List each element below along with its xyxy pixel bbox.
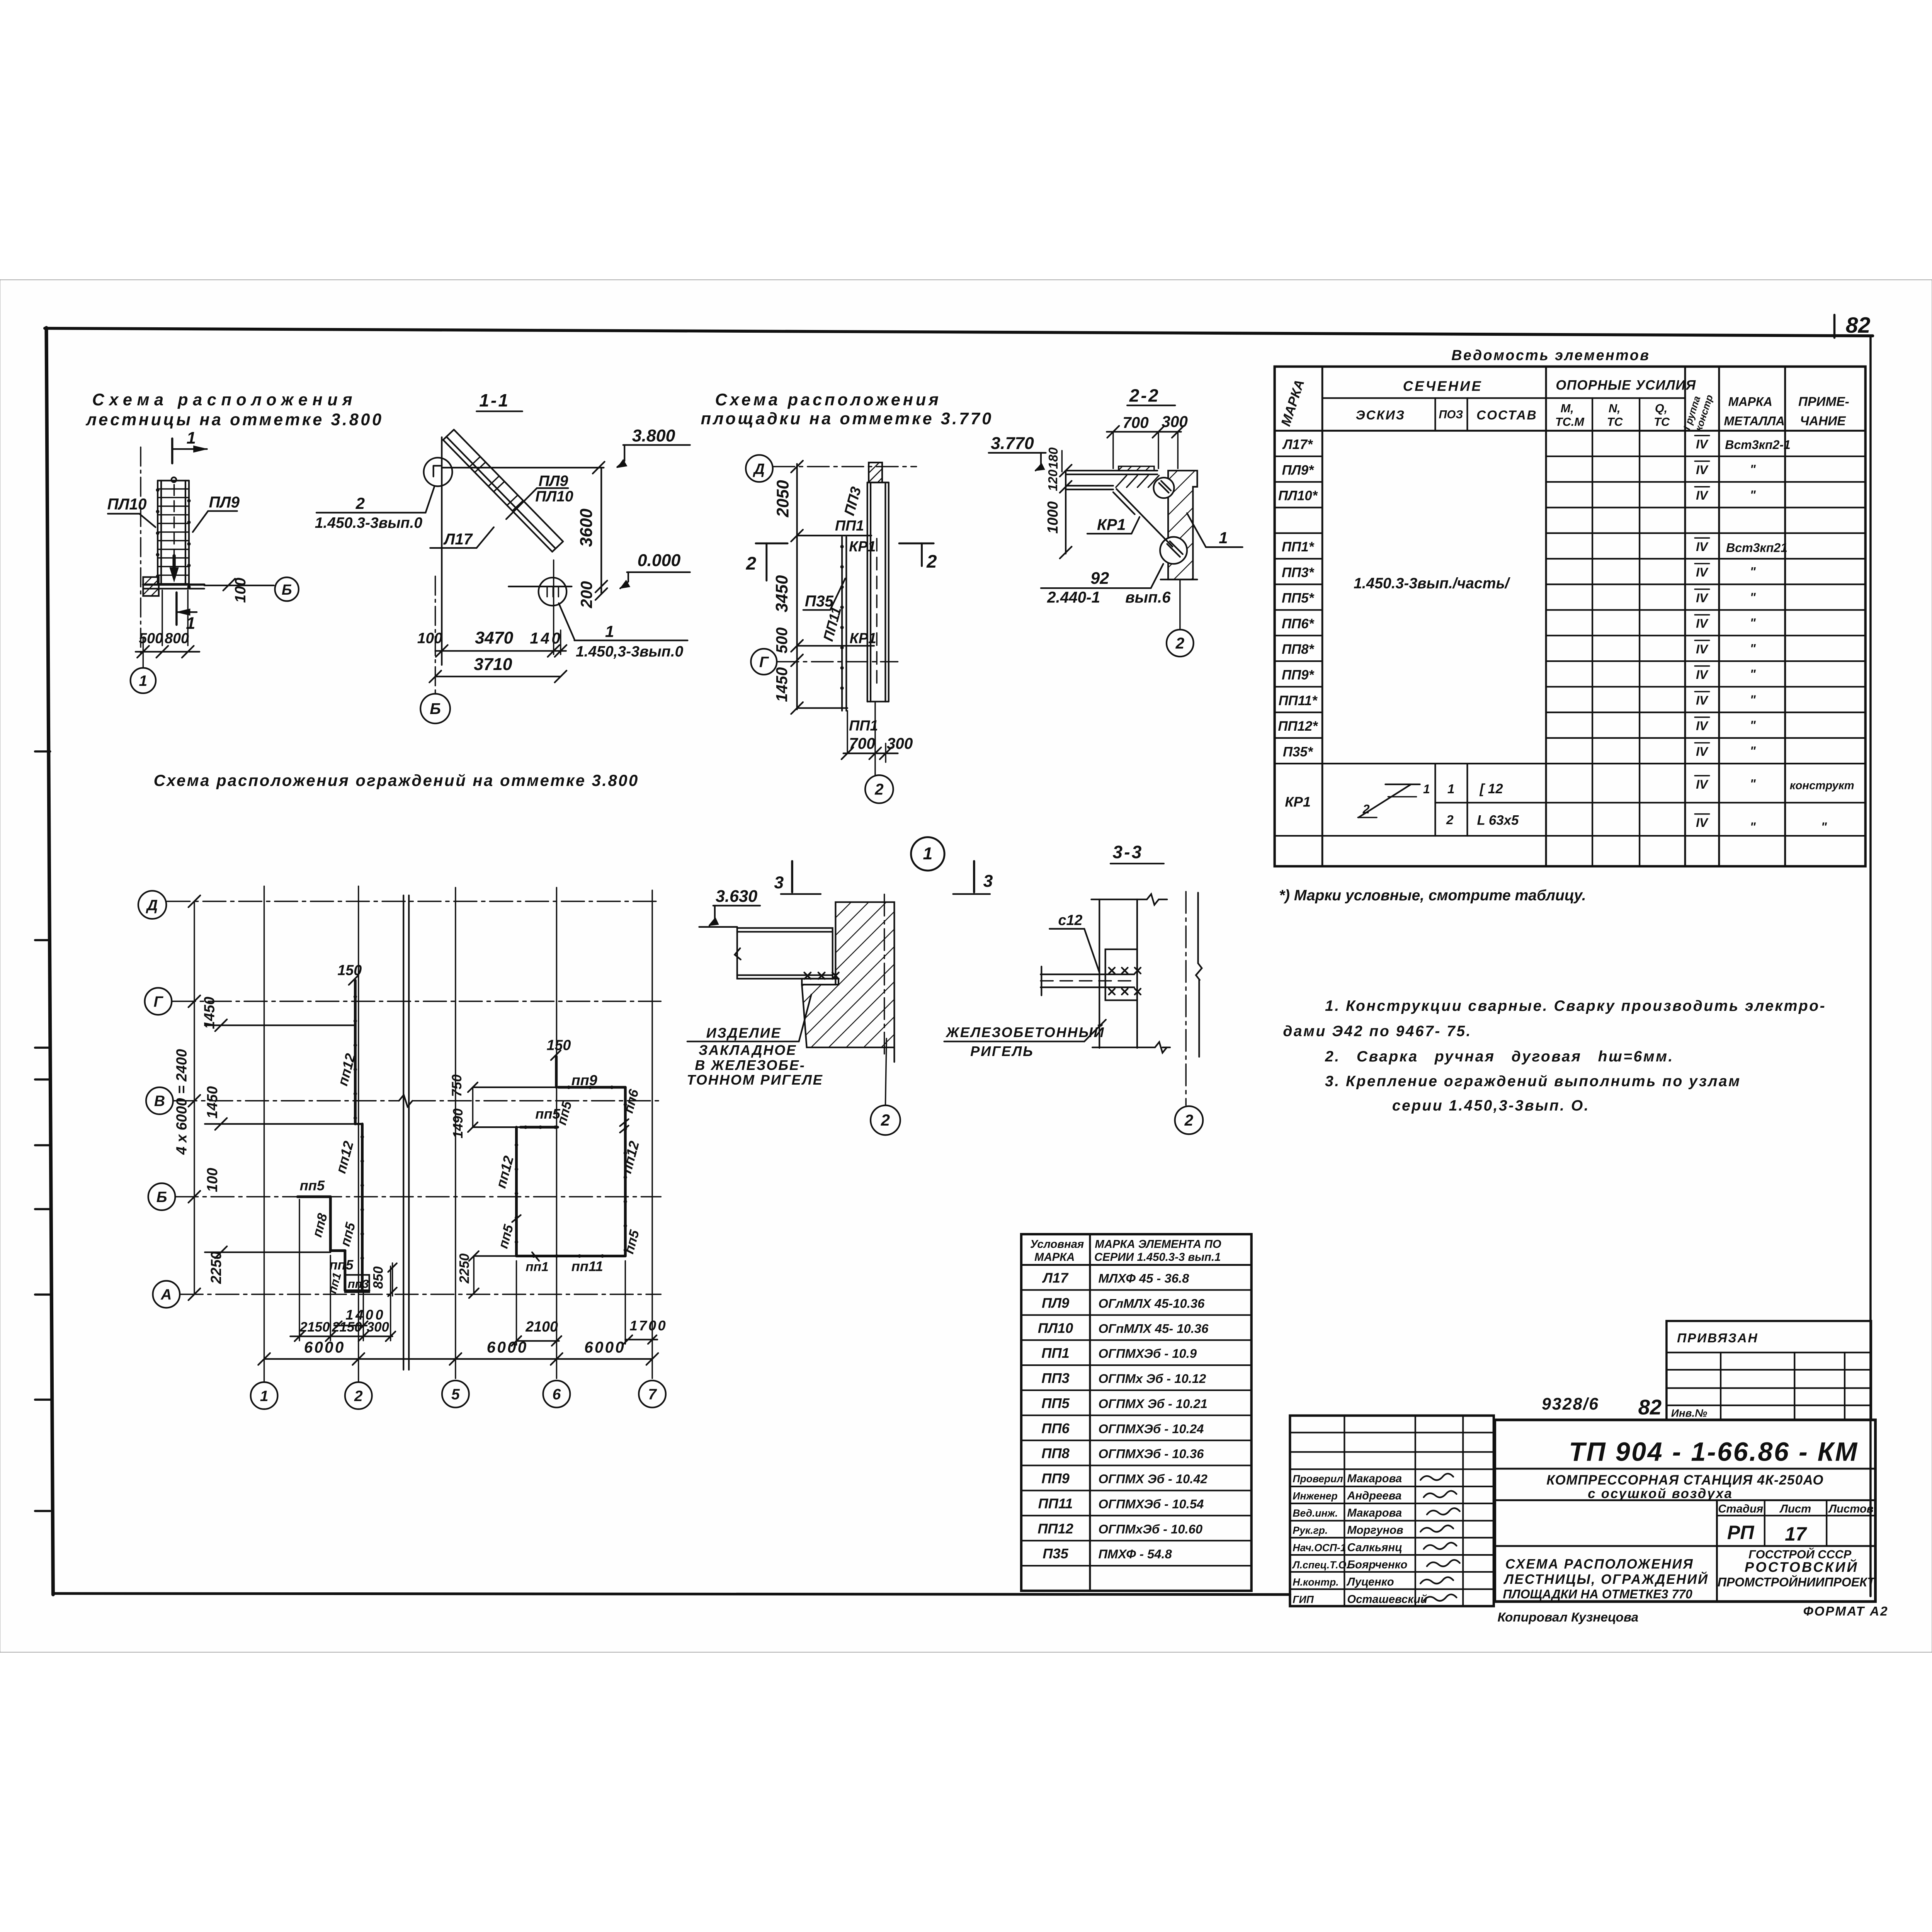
svg-text:7: 7 <box>648 1386 657 1403</box>
svg-text:Схема расположения ограждений: Схема расположения ограждений на отметке… <box>154 771 639 789</box>
section 2 flag right <box>899 542 934 545</box>
dots right group <box>567 1086 570 1089</box>
svg-text:ПП8: ПП8 <box>1041 1446 1070 1461</box>
svg-text:1700: 1700 <box>629 1318 667 1333</box>
svg-text:1450: 1450 <box>201 997 218 1029</box>
detail circle 1 <box>911 837 944 871</box>
svg-text:Л17*: Л17* <box>1282 437 1313 452</box>
svg-text:Боярченко: Боярченко <box>1347 1558 1407 1571</box>
svg-text:вып.6: вып.6 <box>1125 588 1171 606</box>
axis circle Д <box>746 455 773 482</box>
svg-text:2250: 2250 <box>457 1253 472 1284</box>
КР1 sketch <box>1359 784 1411 818</box>
svg-text:1: 1 <box>1219 529 1228 547</box>
пп3 box <box>345 1275 369 1292</box>
svg-text:КОМПРЕССОРНАЯ СТАНЦИЯ 4К-250А: КОМПРЕССОРНАЯ СТАНЦИЯ 4К-250АО <box>1546 1473 1824 1488</box>
svg-text:2: 2 <box>355 494 365 512</box>
svg-text:лестницы на отметке 3.800: лестницы на отметке 3.800 <box>85 411 383 429</box>
sheet number tick <box>1833 315 1836 338</box>
svg-text:Макарова: Макарова <box>1347 1472 1402 1485</box>
svg-text:": " <box>1750 590 1756 604</box>
ladder ПЛ9/ПЛ10 plan <box>156 481 159 585</box>
svg-text:Б: Б <box>156 1189 167 1206</box>
svg-text:ПП1*: ПП1* <box>1282 539 1315 554</box>
concrete column (hatched) <box>1168 471 1197 580</box>
svg-text:300: 300 <box>887 735 913 752</box>
svg-text:IV: IV <box>1696 719 1709 733</box>
svg-text:ПЛ10*: ПЛ10* <box>1278 488 1318 503</box>
page frame right border <box>1869 335 1872 1596</box>
leader 1 / 1.450,3-3вып.0 <box>559 603 574 639</box>
svg-text:ПЛ9: ПЛ9 <box>1042 1295 1070 1311</box>
svg-text:1450: 1450 <box>773 667 791 702</box>
svg-text:Салкьянц: Салкьянц <box>1347 1541 1402 1554</box>
svg-text:ЖЕЛЕЗОБЕТОННЫЙ: ЖЕЛЕЗОБЕТОННЫЙ <box>945 1024 1105 1040</box>
svg-text:2: 2 <box>926 551 937 572</box>
svg-text:Копировал Кузнецова: Копировал Кузнецова <box>1498 1610 1639 1624</box>
svg-text:ЧАНИЕ: ЧАНИЕ <box>1800 414 1846 429</box>
progon bar <box>1041 973 1134 976</box>
svg-text:3600: 3600 <box>577 509 596 547</box>
svg-text:МАРКА: МАРКА <box>1728 395 1772 409</box>
svg-text:ПЛ9: ПЛ9 <box>209 493 240 511</box>
weld circle bottom <box>1160 537 1187 564</box>
svg-text:3.770: 3.770 <box>991 434 1034 453</box>
level line 3.800 <box>442 466 604 469</box>
svg-text:МАРКА ЭЛЕМЕНТА ПО: МАРКА ЭЛЕМЕНТА ПО <box>1095 1238 1221 1251</box>
svg-text:180: 180 <box>1046 447 1061 469</box>
bottom detail circle <box>539 578 567 606</box>
svg-text:РП: РП <box>1727 1522 1754 1543</box>
expansion joint pair <box>402 895 405 1370</box>
svg-text:Моргунов: Моргунов <box>1347 1524 1403 1537</box>
svg-text:дами Э42 по 9467- 75.: дами Э42 по 9467- 75. <box>1283 1023 1472 1039</box>
svg-text:140: 140 <box>530 629 562 647</box>
svg-text:площадки на отметке 3.770: площадки на отметке 3.770 <box>701 410 993 428</box>
axis circle 2 bottom <box>865 775 893 803</box>
svg-text:Д: Д <box>146 897 158 914</box>
svg-text:ПЛОЩАДКИ НА ОТМЕТКЕ3 770: ПЛОЩАДКИ НА ОТМЕТКЕ3 770 <box>1503 1587 1692 1601</box>
lines below platform <box>161 590 163 646</box>
svg-text:2: 2 <box>1184 1111 1194 1129</box>
svg-text:3710: 3710 <box>474 655 512 674</box>
svg-text:пп9: пп9 <box>571 1072 597 1088</box>
svg-text:СЕРИИ 1.450.3-3 вып.1: СЕРИИ 1.450.3-3 вып.1 <box>1094 1251 1221 1264</box>
svg-text:Проверил: Проверил <box>1293 1473 1343 1485</box>
svg-text:": " <box>1750 463 1756 476</box>
svg-text:IV: IV <box>1696 437 1709 451</box>
svg-text:3450: 3450 <box>773 575 791 612</box>
svg-text:ОГПМхЭб - 10.60: ОГПМхЭб - 10.60 <box>1098 1522 1202 1536</box>
svg-text:ПМХФ - 54.8: ПМХФ - 54.8 <box>1098 1547 1172 1561</box>
svg-text:IV: IV <box>1696 816 1709 830</box>
svg-text:ПП8*: ПП8* <box>1282 642 1315 657</box>
svg-text:IV: IV <box>1696 642 1709 656</box>
brace KP1 <box>1116 489 1172 546</box>
svg-text:800: 800 <box>165 630 189 646</box>
weld xxx bottom <box>1109 989 1141 995</box>
axis В <box>146 1087 173 1114</box>
svg-text:IV: IV <box>1696 463 1709 477</box>
section mark 1 top <box>171 439 174 463</box>
svg-text:ОГпМЛХ 45- 10.36: ОГпМЛХ 45- 10.36 <box>1098 1321 1209 1335</box>
svg-text:2: 2 <box>1446 813 1454 827</box>
svg-text:РОСТОВСКИЙ: РОСТОВСКИЙ <box>1745 1559 1859 1575</box>
table row lines <box>1275 455 1322 457</box>
rail dots left run <box>354 995 357 998</box>
axis circle 1 <box>142 656 144 668</box>
hatched wall block <box>143 577 158 596</box>
svg-text:ГИП: ГИП <box>1293 1594 1314 1605</box>
svg-text:РИГЕЛЬ: РИГЕЛЬ <box>970 1043 1034 1059</box>
staff signature table <box>1290 1416 1493 1606</box>
svg-text:": " <box>1750 777 1756 791</box>
svg-text:В: В <box>154 1093 165 1110</box>
table header lines <box>1322 397 1685 399</box>
axis circle Б <box>420 694 450 723</box>
svg-text:КР1: КР1 <box>850 630 876 646</box>
bottom 6000 dims <box>264 1358 652 1360</box>
svg-text:ПП3*: ПП3* <box>1282 565 1315 580</box>
svg-text:ОГПМХ Эб - 10.21: ОГПМХ Эб - 10.21 <box>1098 1396 1207 1411</box>
vertical dim line <box>796 464 798 709</box>
svg-text:2: 2 <box>1362 802 1370 816</box>
svg-text:Л17: Л17 <box>1042 1270 1069 1286</box>
svg-text:пп5: пп5 <box>300 1177 325 1193</box>
wall vertical line <box>440 437 443 665</box>
svg-text:ПРИВЯЗАН: ПРИВЯЗАН <box>1677 1331 1758 1345</box>
border fold ticks <box>35 750 50 753</box>
svg-text:3: 3 <box>774 873 784 892</box>
svg-text:Лист: Лист <box>1779 1503 1811 1515</box>
svg-text:1: 1 <box>605 622 614 640</box>
svg-text:Г: Г <box>153 993 163 1010</box>
svg-text:пп1: пп1 <box>526 1260 549 1274</box>
svg-text:": " <box>1750 667 1756 681</box>
svg-text:1: 1 <box>260 1388 269 1405</box>
svg-text:ПП1: ПП1 <box>1041 1345 1069 1361</box>
svg-text:ТС: ТС <box>1607 415 1623 429</box>
signatures squiggles <box>1420 1474 1453 1480</box>
vertical dim line <box>600 468 602 594</box>
column stub hatched <box>869 463 882 483</box>
svg-text:300: 300 <box>1162 413 1188 430</box>
svg-text:L 63x5: L 63x5 <box>1477 813 1519 828</box>
svg-text:ПЛ10: ПЛ10 <box>1038 1320 1073 1336</box>
svg-text:": " <box>1821 820 1827 834</box>
svg-text:2050: 2050 <box>774 480 792 517</box>
platform edge lines <box>143 583 204 586</box>
svg-text:Г: Г <box>759 654 769 670</box>
svg-text:3. Крепление ограждений выполн: 3. Крепление ограждений выполнить по узл… <box>1325 1073 1741 1090</box>
weld xxx top <box>1109 968 1141 973</box>
svg-text:1: 1 <box>1447 782 1455 796</box>
svg-text:Макарова: Макарова <box>1347 1507 1402 1519</box>
svg-text:с осушкой воздуха: с осушкой воздуха <box>1588 1486 1733 1501</box>
svg-text:СХЕМА РАСПОЛОЖЕНИЯ: СХЕМА РАСПОЛОЖЕНИЯ <box>1505 1557 1694 1572</box>
svg-text:М,: М, <box>1561 401 1574 415</box>
svg-text:IV: IV <box>1696 668 1709 682</box>
svg-text:ПП6*: ПП6* <box>1282 616 1315 631</box>
axis line to Б <box>434 576 436 694</box>
svg-text:Листов: Листов <box>1828 1503 1874 1515</box>
svg-text:Н.контр.: Н.контр. <box>1293 1577 1338 1588</box>
wall bottom edge <box>1092 1046 1155 1049</box>
page frame top border <box>45 328 1873 336</box>
svg-text:ТП 904 - 1-66.86 - КМ: ТП 904 - 1-66.86 - КМ <box>1569 1437 1858 1467</box>
svg-text:Рук.гр.: Рук.гр. <box>1293 1525 1328 1536</box>
table outer border <box>1275 367 1866 866</box>
svg-text:700: 700 <box>849 735 875 752</box>
svg-text:ОГлМЛХ 45-10.36: ОГлМЛХ 45-10.36 <box>1098 1296 1205 1310</box>
platform slabs <box>1066 469 1157 472</box>
svg-text:В ЖЕЛЕЗОБЕ-: В ЖЕЛЕЗОБЕ- <box>695 1057 805 1073</box>
svg-text:4 х 6000 = 2400: 4 х 6000 = 2400 <box>173 1049 190 1155</box>
rivet dots on П35 <box>840 545 844 548</box>
svg-text:1450: 1450 <box>204 1086 220 1119</box>
svg-text:СОСТАВ: СОСТАВ <box>1476 408 1537 422</box>
svg-text:Вст3кп2-1: Вст3кп2-1 <box>1725 438 1791 452</box>
svg-text:*) Марки условные, смотрите та: *) Марки условные, смотрите таблицу. <box>1279 887 1586 904</box>
svg-text:ТОННОМ РИГЕЛЕ: ТОННОМ РИГЕЛЕ <box>687 1072 823 1088</box>
svg-text:500: 500 <box>773 627 791 653</box>
svg-text:82: 82 <box>1846 313 1871 338</box>
svg-text:1. Конструкции сварные. Сварку: 1. Конструкции сварные. Сварку производи… <box>1325 998 1826 1014</box>
svg-text:ЛЕСТНИЦЫ, ОГРАЖДЕНИЙ: ЛЕСТНИЦЫ, ОГРАЖДЕНИЙ <box>1503 1571 1709 1587</box>
axis А <box>153 1281 180 1308</box>
svg-text:IV: IV <box>1696 777 1709 791</box>
concrete column hatched <box>802 902 894 1048</box>
wall top edge <box>1091 898 1147 901</box>
svg-text:Инв.№: Инв.№ <box>1671 1407 1708 1419</box>
dashed centerline <box>876 539 878 690</box>
svg-text:": " <box>1750 616 1756 630</box>
left dim line <box>193 901 195 1294</box>
svg-text:Нач.ОСП-1: Нач.ОСП-1 <box>1293 1542 1346 1553</box>
svg-text:3.630: 3.630 <box>716 887 757 906</box>
svg-text:2. Сварка ручная дуговая hш=6м: 2. Сварка ручная дуговая hш=6мм. <box>1325 1048 1674 1065</box>
svg-text:3: 3 <box>983 872 993 891</box>
svg-text:1.450,3-3вып.0: 1.450,3-3вып.0 <box>576 643 684 660</box>
svg-text:": " <box>1750 744 1756 758</box>
svg-text:ОГПМХ Эб - 10.42: ОГПМХ Эб - 10.42 <box>1098 1472 1207 1486</box>
rigel inner rect <box>1105 949 1137 1000</box>
svg-text:82: 82 <box>1638 1396 1662 1419</box>
svg-text:ПП6: ПП6 <box>1041 1420 1070 1436</box>
weld xxx <box>804 973 838 979</box>
embedded channel <box>737 928 833 979</box>
svg-text:IV: IV <box>1696 591 1709 605</box>
svg-text:Вст3кп21: Вст3кп21 <box>1726 541 1787 555</box>
svg-text:Стадия: Стадия <box>1718 1503 1763 1515</box>
svg-text:ПП9*: ПП9* <box>1282 668 1315 683</box>
svg-text:ПОЗ: ПОЗ <box>1439 408 1463 421</box>
svg-text:Q,: Q, <box>1655 401 1667 415</box>
svg-text:ОГПМх Эб - 10.12: ОГПМх Эб - 10.12 <box>1098 1371 1206 1386</box>
svg-text:П35*: П35* <box>1283 744 1313 759</box>
svg-text:Ведомость элементов: Ведомость элементов <box>1451 347 1650 363</box>
vertical axis 2 <box>357 886 359 1382</box>
svg-text:IV: IV <box>1696 617 1709 631</box>
svg-text:5: 5 <box>451 1386 460 1403</box>
svg-text:Луценко: Луценко <box>1346 1576 1394 1588</box>
svg-text:КР1: КР1 <box>1097 515 1126 533</box>
bottom stub lines <box>847 711 849 753</box>
vertical dim line <box>1065 471 1067 554</box>
axis circle Б <box>275 577 298 601</box>
svg-text:пп11: пп11 <box>571 1259 603 1274</box>
platform plate П35 verticals <box>841 537 843 711</box>
vertical axis 7 <box>651 890 653 1378</box>
svg-text:100: 100 <box>417 630 442 646</box>
svg-text:300: 300 <box>367 1320 389 1335</box>
svg-text:6000: 6000 <box>584 1338 626 1356</box>
axis Г <box>145 988 172 1015</box>
svg-text:Л.спец.Т.О.: Л.спец.Т.О. <box>1292 1559 1349 1571</box>
page frame bottom border <box>53 1594 1290 1595</box>
column bottom line <box>1161 578 1197 581</box>
svg-text:ИЗДЕЛИЕ: ИЗДЕЛИЕ <box>706 1025 782 1041</box>
svg-text:700: 700 <box>1122 414 1149 432</box>
svg-text:Схема расположения: Схема расположения <box>92 391 357 409</box>
svg-text:IV: IV <box>1696 565 1709 579</box>
axis line 1 (dash-dot) <box>140 447 142 653</box>
leader to circle 2 <box>1175 1106 1203 1134</box>
svg-text:92: 92 <box>1090 569 1109 588</box>
svg-text:ЗАКЛАДНОЕ: ЗАКЛАДНОЕ <box>699 1042 797 1058</box>
svg-text:Схема расположения: Схема расположения <box>715 391 941 409</box>
svg-text:МЛХФ 45 - 36.8: МЛХФ 45 - 36.8 <box>1098 1271 1189 1286</box>
svg-text:2: 2 <box>354 1388 363 1405</box>
svg-text:": " <box>1750 693 1756 707</box>
svg-text:850: 850 <box>371 1266 386 1289</box>
svg-text:1: 1 <box>187 429 196 447</box>
svg-text:ТС: ТС <box>1654 415 1670 429</box>
svg-text:ПП1: ПП1 <box>849 717 878 733</box>
svg-text:6: 6 <box>553 1386 561 1403</box>
page frame left border <box>46 328 53 1594</box>
rail rivet dots <box>156 488 159 492</box>
svg-text:1: 1 <box>139 673 148 689</box>
axis Б <box>148 1183 175 1210</box>
svg-text:Л17: Л17 <box>443 530 473 548</box>
svg-text:3-3: 3-3 <box>1112 842 1143 862</box>
svg-text:ОГПМХЭб - 10.24: ОГПМХЭб - 10.24 <box>1098 1422 1204 1436</box>
svg-text:ПЛ10: ПЛ10 <box>107 495 147 513</box>
svg-text:2: 2 <box>1175 634 1185 652</box>
svg-text:6000: 6000 <box>304 1338 345 1356</box>
svg-text:ПЛ10: ПЛ10 <box>535 488 573 505</box>
bottom axis circles <box>251 1382 278 1409</box>
svg-text:ПП9: ПП9 <box>1041 1471 1070 1486</box>
svg-text:ПРОМСТРОЙНИИПРОЕКТ: ПРОМСТРОЙНИИПРОЕКТ <box>1718 1575 1876 1589</box>
axis circle Г <box>751 649 777 675</box>
platform horizontals <box>797 534 872 537</box>
svg-text:Осташевский: Осташевский <box>1347 1593 1427 1605</box>
bottom rail <box>516 1254 625 1258</box>
axis Д line <box>773 466 917 468</box>
svg-text:200: 200 <box>577 581 595 609</box>
panel verticals <box>866 483 869 702</box>
svg-text:": " <box>1750 565 1756 579</box>
section mark 1 bottom <box>175 592 178 625</box>
wall verticals <box>1098 900 1100 1048</box>
svg-text:ПП12: ПП12 <box>1037 1520 1073 1536</box>
svg-text:Вед.инж.: Вед.инж. <box>1293 1507 1338 1519</box>
svg-text:Инженер: Инженер <box>1293 1490 1337 1502</box>
svg-text:Андреева: Андреева <box>1347 1489 1401 1502</box>
svg-text:серии 1.450,3-3вып. О.: серии 1.450,3-3вып. О. <box>1392 1097 1590 1114</box>
svg-text:Условная: Условная <box>1030 1238 1084 1251</box>
svg-text:1.450.3-3вып./часть/: 1.450.3-3вып./часть/ <box>1354 575 1511 592</box>
svg-text:0.000: 0.000 <box>638 551 681 570</box>
svg-text:конструкт: конструкт <box>1790 779 1854 792</box>
section flag 3 right <box>973 861 976 892</box>
grout hatch between slabs <box>1116 475 1159 487</box>
svg-text:ОПОРНЫЕ УСИЛИЯ: ОПОРНЫЕ УСИЛИЯ <box>1556 378 1696 393</box>
svg-text:[ 12: [ 12 <box>1480 781 1503 796</box>
svg-text:ТС.М: ТС.М <box>1555 415 1585 429</box>
svg-text:1-1: 1-1 <box>479 390 510 410</box>
svg-text:2.440-1: 2.440-1 <box>1047 588 1100 606</box>
svg-text:150: 150 <box>547 1037 571 1053</box>
svg-text:ПРИМЕ-: ПРИМЕ- <box>1798 395 1849 409</box>
svg-text:ПП11: ПП11 <box>1038 1495 1073 1511</box>
svg-text:120: 120 <box>1046 469 1060 491</box>
vertical axis 5 <box>454 888 456 1378</box>
svg-text:100: 100 <box>232 578 249 603</box>
detail callout circle (top) <box>424 457 452 486</box>
svg-text:1000: 1000 <box>1044 501 1061 534</box>
svg-text:1: 1 <box>923 844 933 863</box>
element mark table <box>1021 1234 1252 1591</box>
svg-text:ПЛ9*: ПЛ9* <box>1282 463 1314 478</box>
svg-text:ПП5: ПП5 <box>1041 1395 1070 1411</box>
svg-text:IV: IV <box>1696 745 1709 759</box>
svg-text:ПП1: ПП1 <box>835 517 864 534</box>
svg-text:2: 2 <box>874 780 884 798</box>
right axis lines <box>1185 891 1187 1105</box>
svg-text:2250: 2250 <box>208 1252 224 1284</box>
svg-text:3.800: 3.800 <box>632 427 675 446</box>
svg-text:IV: IV <box>1696 693 1709 707</box>
title block outer <box>1495 1420 1876 1602</box>
stair steps ticks <box>469 457 523 511</box>
svg-text:ПЛ9: ПЛ9 <box>539 473 568 490</box>
svg-text:2-2: 2-2 <box>1129 385 1160 405</box>
svg-text:1490: 1490 <box>451 1108 466 1138</box>
svg-text:": " <box>1750 488 1756 502</box>
svg-text:Б: Б <box>282 582 292 598</box>
svg-text:П35: П35 <box>1043 1546 1068 1561</box>
top plate <box>1119 466 1154 471</box>
svg-text:МЕТАЛЛА: МЕТАЛЛА <box>1724 414 1784 428</box>
svg-text:100: 100 <box>204 1168 220 1192</box>
section 2 flag left <box>756 542 787 545</box>
svg-text:ОГПМХЭб - 10.9: ОГПМХЭб - 10.9 <box>1098 1346 1197 1361</box>
svg-text:Б: Б <box>430 700 441 718</box>
svg-text:9328/6: 9328/6 <box>1542 1395 1599 1413</box>
svg-text:Д: Д <box>753 461 765 477</box>
svg-text:КР1: КР1 <box>849 538 876 554</box>
svg-text:750: 750 <box>449 1074 464 1097</box>
stair bottom end <box>552 541 563 552</box>
plate under channel <box>802 979 838 985</box>
svg-text:N,: N, <box>1609 401 1621 415</box>
vertical axis 6 <box>556 888 558 1378</box>
axis Д <box>138 891 167 919</box>
column axis dash-dot <box>883 894 885 1056</box>
